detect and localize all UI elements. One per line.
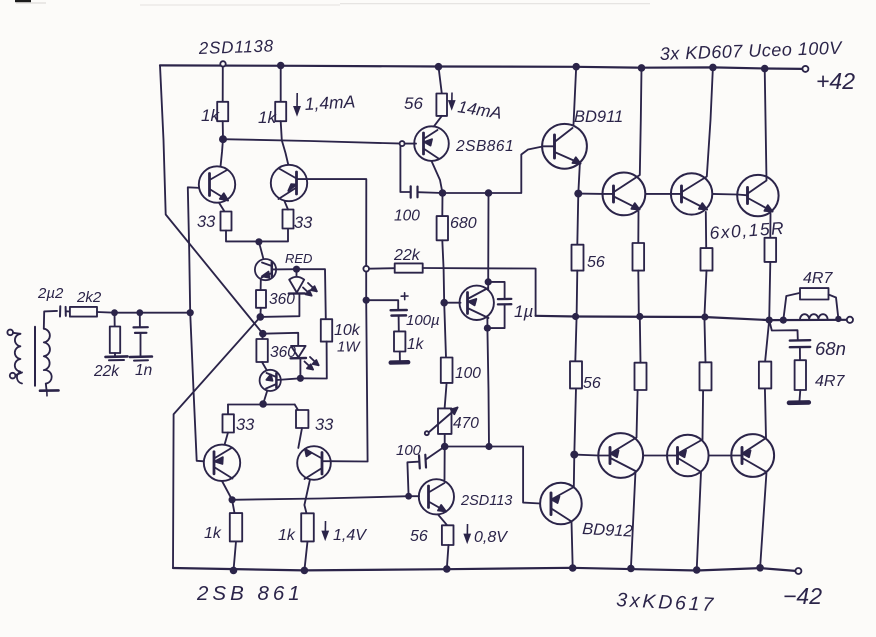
svg-text:2SD1138: 2SD1138 [197,36,274,58]
svg-text:1W: 1W [337,339,361,356]
svg-text:1,4mA: 1,4mA [304,91,356,114]
svg-text:22k: 22k [93,363,120,380]
svg-text:−42: −42 [783,583,822,609]
svg-text:1k: 1k [258,108,277,127]
svg-text:33: 33 [236,416,255,434]
svg-text:4R7: 4R7 [803,270,833,287]
svg-text:1k: 1k [407,336,425,353]
svg-text:RED: RED [285,251,312,266]
svg-text:2SB 861: 2SB 861 [196,582,304,605]
svg-text:100: 100 [394,208,420,225]
svg-text:100: 100 [396,442,422,459]
svg-text:1k: 1k [204,525,222,542]
svg-text:1µ: 1µ [514,302,533,321]
svg-text:360: 360 [269,291,295,308]
svg-text:56: 56 [587,254,605,271]
svg-text:BD911: BD911 [574,108,623,126]
svg-text:1k: 1k [278,527,296,544]
svg-text:33: 33 [315,416,334,434]
svg-text:4R7: 4R7 [815,373,845,390]
svg-text:33: 33 [197,213,216,231]
svg-text:2SB861: 2SB861 [455,138,514,155]
svg-text:2µ2: 2µ2 [37,285,64,302]
svg-text:2SD113: 2SD113 [460,493,512,509]
svg-text:56: 56 [410,528,428,545]
svg-text:1,4V: 1,4V [333,527,367,544]
svg-text:+42: +42 [816,68,855,94]
svg-text:56: 56 [583,375,601,392]
svg-text:BD912: BD912 [582,520,633,541]
svg-text:1n: 1n [135,362,152,379]
svg-text:2k2: 2k2 [76,289,102,306]
svg-text:100: 100 [455,365,481,382]
svg-text:56: 56 [404,94,423,113]
svg-text:22k: 22k [393,247,421,264]
svg-text:33: 33 [294,214,313,232]
svg-text:360: 360 [270,344,296,361]
svg-text:680: 680 [450,215,477,232]
svg-text:470: 470 [453,415,479,432]
svg-text:0,8V: 0,8V [474,529,508,546]
svg-text:100µ: 100µ [406,312,440,329]
svg-text:1k: 1k [201,106,220,125]
svg-text:68n: 68n [815,338,846,359]
svg-text:10k: 10k [334,322,361,339]
